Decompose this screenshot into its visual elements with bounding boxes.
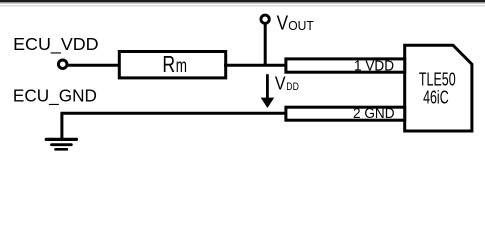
- svg-text:m: m: [176, 55, 187, 77]
- label VOUT: [277, 13, 314, 35]
- wire: [62, 113, 287, 138]
- svg-text:V: V: [275, 73, 286, 93]
- svg-text:1 VDD: 1 VDD: [354, 59, 394, 75]
- wire: [67, 64, 121, 67]
- svg-text:OUT: OUT: [288, 18, 314, 33]
- wire: [224, 64, 287, 67]
- pin 1 VDD: [286, 59, 405, 72]
- label Rm: [162, 51, 187, 77]
- resistor Rm: [119, 52, 225, 78]
- svg-text:V: V: [277, 13, 289, 35]
- pin 2 GND: [286, 107, 405, 120]
- svg-text:ECU_VDD: ECU_VDD: [13, 34, 99, 55]
- svg-text:2 GND: 2 GND: [353, 106, 395, 122]
- terminal VOUT: [261, 15, 269, 23]
- wire: [264, 23, 267, 67]
- IC label TLE5046iC: [419, 68, 456, 107]
- label VDD: [275, 73, 299, 93]
- terminal ECU_VDD: [58, 60, 66, 69]
- svg-text:ECU_GND: ECU_GND: [13, 86, 97, 107]
- ground: [46, 139, 76, 149]
- svg-text:DD: DD: [286, 81, 299, 93]
- svg-text:46iC: 46iC: [423, 87, 449, 108]
- svg-text:R: R: [162, 51, 175, 77]
- arrow VDD: [261, 74, 275, 108]
- IC U1 TLE5046iC: [405, 45, 472, 131]
